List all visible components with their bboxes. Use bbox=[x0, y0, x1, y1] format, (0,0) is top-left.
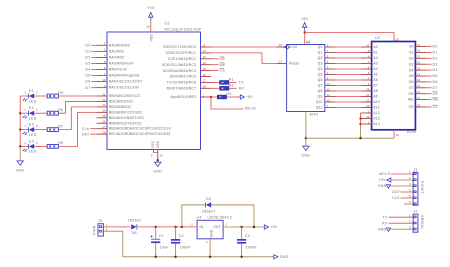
svg-text:A12: A12 bbox=[373, 111, 379, 115]
power +5V supply U3 bbox=[147, 6, 155, 21]
svg-text:17: 17 bbox=[417, 72, 421, 76]
svg-text:1N5817: 1N5817 bbox=[127, 219, 141, 223]
net label CLK to pin 27 bbox=[82, 127, 97, 131]
svg-text:RA4/T0CKI: RA4/T0CKI bbox=[109, 68, 128, 72]
svg-text:24: 24 bbox=[102, 109, 106, 113]
svg-text:D4: D4 bbox=[206, 197, 211, 201]
svg-text:D0: D0 bbox=[433, 45, 438, 49]
wire A tie to ground rail bbox=[360, 124, 362, 138]
svg-text:A7: A7 bbox=[373, 84, 377, 88]
svg-text:R1: R1 bbox=[229, 77, 234, 81]
capacitor C3 100nF bbox=[237, 227, 257, 257]
svg-text:D1: D1 bbox=[85, 49, 90, 53]
pin RB3 (pin 24) bbox=[97, 109, 143, 115]
svg-text:A9: A9 bbox=[373, 95, 377, 99]
svg-text:A11: A11 bbox=[373, 106, 379, 110]
pin VSS 8 and 19 of U3 bbox=[151, 150, 163, 161]
svg-text:TX: TX bbox=[383, 215, 388, 219]
svg-text:D6: D6 bbox=[132, 231, 137, 235]
svg-text:O2: O2 bbox=[409, 57, 414, 61]
connector J2 SERIAL bbox=[409, 210, 424, 233]
svg-text:12: 12 bbox=[327, 87, 331, 91]
svg-text:D3: D3 bbox=[433, 62, 438, 66]
resistor R7 bbox=[47, 124, 63, 131]
net label TX to J2 pin1 bbox=[383, 215, 414, 219]
ground GND arrow right bbox=[274, 255, 289, 259]
svg-text:+5V: +5V bbox=[379, 178, 387, 182]
svg-text:20: 20 bbox=[146, 25, 150, 29]
pin Q7 (pin 13) wire to U2 A7 (pin 3) bbox=[318, 82, 378, 88]
svg-text:24: 24 bbox=[366, 93, 370, 97]
net label RX to J2 pin2 bbox=[382, 221, 413, 225]
junction C1 top bbox=[155, 226, 157, 228]
svg-text:25: 25 bbox=[366, 87, 370, 91]
ground rail wire bbox=[306, 137, 394, 139]
wire A12-A14 tie bbox=[360, 113, 362, 124]
junction +5V bbox=[304, 31, 306, 33]
svg-text:D3: D3 bbox=[85, 62, 90, 66]
svg-text:E4: E4 bbox=[29, 139, 34, 143]
wire MCLR net with label bbox=[211, 97, 256, 111]
svg-text:CE: CE bbox=[409, 105, 415, 109]
net label WE with overline bbox=[211, 63, 226, 67]
svg-text:RB0/AN12/INT/IOC: RB0/AN12/INT/IOC bbox=[109, 94, 141, 98]
svg-text:WE: WE bbox=[433, 98, 440, 102]
svg-text:LM78L05ACZ: LM78L05ACZ bbox=[208, 216, 233, 220]
ground GND below U3 bbox=[153, 162, 162, 173]
wire +5V to U1 VDD pin 16 bbox=[304, 31, 306, 45]
svg-text:Q1: Q1 bbox=[318, 51, 323, 55]
pin RA6 (pin 10) with net label D6 bbox=[85, 78, 142, 84]
connector J5 PWR bbox=[93, 219, 108, 236]
pin RB5 (pin 26) bbox=[97, 120, 143, 126]
svg-text:CLK: CLK bbox=[392, 196, 400, 200]
svg-text:TX: TX bbox=[239, 81, 244, 85]
svg-text:22: 22 bbox=[102, 98, 106, 102]
pin GND of U4 to rail bbox=[209, 239, 211, 257]
svg-text:TX/CK/AN18/RC6: TX/CK/AN18/RC6 bbox=[167, 81, 196, 85]
svg-text:A1: A1 bbox=[373, 51, 377, 55]
capacitor C2 100nF bbox=[171, 227, 191, 257]
pin RB7 (pin 28) bbox=[97, 130, 171, 136]
svg-text:15: 15 bbox=[327, 98, 331, 102]
svg-text:19: 19 bbox=[417, 84, 421, 88]
svg-text:D5: D5 bbox=[433, 74, 438, 78]
wire RC0 to U1 CLK bbox=[211, 46, 287, 48]
power +5V arrow right bbox=[227, 95, 253, 99]
svg-text:Vpp/MCLR/RE3: Vpp/MCLR/RE3 bbox=[170, 95, 196, 99]
resistor R1 on TX line bbox=[211, 77, 244, 84]
svg-text:RA2/AN2: RA2/AN2 bbox=[109, 55, 124, 59]
pin RA3 (pin 5) with net label D3 bbox=[85, 60, 134, 66]
svg-text:18: 18 bbox=[417, 78, 421, 82]
pin Q8 (pin 12) wire to U2 A8 (pin 25) bbox=[318, 87, 378, 93]
svg-text:+5V: +5V bbox=[147, 6, 155, 10]
svg-text:CCP1/AN14/RC2: CCP1/AN14/RC2 bbox=[168, 57, 196, 61]
pin CE (pin 20) with net label CS bbox=[409, 103, 439, 109]
svg-text:14: 14 bbox=[396, 133, 400, 137]
svg-text:MCLR: MCLR bbox=[245, 107, 256, 111]
svg-text:Q2: Q2 bbox=[318, 56, 323, 60]
svg-text:SDI/SDA/AN16/RC4: SDI/SDA/AN16/RC4 bbox=[163, 69, 196, 73]
svg-text:D6: D6 bbox=[433, 80, 438, 84]
svg-text:Q11: Q11 bbox=[316, 106, 323, 110]
wire J5 pin1 to D6 bbox=[103, 226, 130, 228]
svg-text:R3: R3 bbox=[227, 92, 232, 96]
junction ground rail bbox=[359, 137, 361, 139]
svg-text:10: 10 bbox=[366, 43, 370, 47]
svg-text:C2: C2 bbox=[179, 234, 184, 238]
svg-text:C3: C3 bbox=[245, 234, 250, 238]
wire D6 to regulator input bbox=[138, 226, 197, 228]
svg-text:SOSCO/T1CKI/RC0: SOSCO/T1CKI/RC0 bbox=[163, 45, 196, 49]
svg-text:R6: R6 bbox=[58, 108, 63, 112]
pin RC6 (pin 17) bbox=[167, 79, 211, 85]
wire +5V to U2 VCC pin 28 bbox=[305, 33, 394, 42]
LED E4 bbox=[20, 139, 47, 153]
svg-text:O1: O1 bbox=[409, 51, 414, 55]
svg-text:A0: A0 bbox=[373, 45, 377, 49]
svg-text:OE: OE bbox=[220, 57, 226, 61]
svg-text:+5V: +5V bbox=[246, 95, 254, 99]
svg-text:Q10: Q10 bbox=[316, 100, 323, 104]
svg-text:E3: E3 bbox=[29, 123, 34, 127]
counter U1 4040 body bbox=[287, 40, 325, 116]
svg-text:LED: LED bbox=[29, 117, 37, 121]
pin RC5 (pin 16) bbox=[170, 73, 211, 79]
svg-text:A13: A13 bbox=[373, 117, 379, 121]
net label OE with overline bbox=[211, 57, 226, 61]
pin RA4 (pin 6) with net label D4 bbox=[85, 66, 127, 72]
resistor R2 on RX line bbox=[211, 83, 245, 90]
connector J1 PICKIT bbox=[409, 168, 424, 206]
net label MCLR to J1 pin1 bbox=[379, 172, 413, 176]
svg-text:CLK: CLK bbox=[82, 127, 90, 131]
pin RA5 (pin 7) with net label D5 bbox=[85, 72, 140, 78]
svg-text:1N5817: 1N5817 bbox=[201, 209, 215, 213]
pin 6 n.c. stub of J1 bbox=[404, 202, 413, 206]
junction LED bus 4 bbox=[19, 145, 21, 147]
junction D4 return bbox=[253, 226, 255, 228]
pin A14 (pin 1) bbox=[361, 120, 380, 126]
svg-text:26: 26 bbox=[102, 120, 106, 124]
pin OE (pin 22) with net label OE bbox=[408, 90, 438, 96]
net label DAT to J1 pin4 bbox=[392, 190, 413, 194]
svg-text:12: 12 bbox=[417, 49, 421, 53]
pin Q6 (pin 4) wire to U2 A6 (pin 4) bbox=[318, 76, 378, 82]
svg-text:D1: D1 bbox=[433, 51, 438, 55]
svg-text:LED: LED bbox=[29, 133, 37, 137]
svg-text:RX: RX bbox=[239, 86, 245, 90]
svg-text:PICKIT: PICKIT bbox=[420, 181, 424, 195]
svg-text:DAT: DAT bbox=[82, 132, 90, 136]
svg-text:CS: CS bbox=[433, 105, 439, 109]
svg-text:Q6: Q6 bbox=[318, 78, 323, 82]
pin RB1 (pin 22) bbox=[97, 98, 134, 104]
pin RC1 (pin 12) bbox=[166, 49, 211, 55]
svg-text:OE: OE bbox=[433, 92, 439, 96]
svg-text:18: 18 bbox=[203, 85, 207, 89]
svg-text:16: 16 bbox=[417, 66, 421, 70]
svg-text:U3: U3 bbox=[165, 22, 170, 26]
junction A14 bbox=[359, 123, 361, 125]
svg-text:RB5/AN13/T1G/IOC: RB5/AN13/T1G/IOC bbox=[109, 121, 142, 125]
svg-text:MCLR: MCLR bbox=[379, 172, 390, 176]
resistor R6 bbox=[47, 108, 63, 115]
LED E3 bbox=[20, 123, 47, 137]
svg-text:100nF: 100nF bbox=[180, 245, 192, 249]
resistor R3 pull-up bbox=[211, 92, 232, 99]
pin A13 (pin 26) bbox=[361, 115, 380, 121]
junction C2 top bbox=[174, 226, 176, 228]
pin RA1 (pin 3) with net label D1 bbox=[85, 48, 124, 54]
svg-text:RB1/AN10/IOC: RB1/AN10/IOC bbox=[109, 99, 134, 103]
junction A13 bbox=[359, 117, 361, 119]
svg-text:O3: O3 bbox=[409, 62, 414, 66]
svg-text:RA1/AN1: RA1/AN1 bbox=[109, 49, 124, 53]
svg-text:IN: IN bbox=[200, 225, 204, 229]
ground rail bottom bbox=[123, 256, 274, 258]
wire E1 resistor to RB0 bbox=[58, 95, 96, 97]
svg-text:DAT: DAT bbox=[392, 190, 400, 194]
svg-text:OE: OE bbox=[408, 92, 414, 96]
svg-text:RA5/AN4/Vcap/SS: RA5/AN4/Vcap/SS bbox=[109, 74, 140, 78]
svg-text:GND: GND bbox=[280, 255, 289, 259]
pin MCLR (pin 1) of U3 bbox=[170, 93, 211, 99]
svg-text:O6: O6 bbox=[409, 80, 414, 84]
svg-text:ROM: ROM bbox=[407, 130, 416, 134]
pin RC2 (pin 13) bbox=[168, 55, 211, 61]
svg-text:WE: WE bbox=[408, 98, 414, 102]
svg-text:x: x bbox=[404, 202, 406, 206]
svg-text:16: 16 bbox=[306, 40, 310, 44]
wire E2 resistor to RB1 bbox=[58, 101, 96, 113]
pin CLK of U1 with clock symbol bbox=[277, 43, 298, 49]
svg-text:D6: D6 bbox=[85, 80, 90, 84]
svg-text:15: 15 bbox=[417, 61, 421, 65]
svg-text:D2: D2 bbox=[433, 56, 438, 60]
wire LED cathode bus bbox=[19, 96, 21, 146]
svg-text:Q5: Q5 bbox=[318, 73, 323, 77]
junction LED bus 3 bbox=[19, 128, 21, 130]
svg-text:A10: A10 bbox=[373, 100, 379, 104]
pin O6 (pin 18) with net label D6 bbox=[409, 78, 438, 84]
svg-text:E2: E2 bbox=[29, 106, 34, 110]
svg-text:LED: LED bbox=[29, 150, 37, 154]
junction rail C2 bbox=[174, 256, 176, 258]
svg-text:28: 28 bbox=[102, 130, 106, 134]
pin Q0 (pin 9) wire to U2 A0 (pin 10) bbox=[318, 43, 378, 49]
svg-text:Q0: Q0 bbox=[318, 45, 323, 49]
svg-text:U4: U4 bbox=[197, 216, 202, 220]
junction MCLR bbox=[210, 96, 212, 98]
svg-text:RA0/AN0/SS: RA0/AN0/SS bbox=[109, 43, 131, 47]
svg-text:O4: O4 bbox=[409, 68, 414, 72]
svg-text:13: 13 bbox=[327, 82, 331, 86]
svg-text:RX/DT/AN19/RC7: RX/DT/AN19/RC7 bbox=[167, 87, 196, 91]
svg-text:RX: RX bbox=[382, 221, 388, 225]
svg-text:16: 16 bbox=[203, 73, 207, 77]
svg-text:PWR: PWR bbox=[93, 225, 97, 234]
pin A12 (pin 2) bbox=[361, 109, 380, 115]
junction LED bus 2 bbox=[19, 112, 21, 114]
svg-text:CS: CS bbox=[220, 69, 226, 73]
svg-text:27: 27 bbox=[417, 96, 421, 100]
svg-text:13: 13 bbox=[203, 55, 207, 59]
svg-text:+5V: +5V bbox=[301, 17, 309, 21]
power +5V supply U1 U2 bbox=[301, 17, 309, 31]
svg-text:D0: D0 bbox=[85, 43, 90, 47]
pin Q1 (pin 7) wire to U2 A1 (pin 9) bbox=[318, 49, 378, 55]
svg-text:15: 15 bbox=[203, 67, 207, 71]
svg-text:A5: A5 bbox=[373, 73, 377, 77]
pin RA7 (pin 9) with net label D7 bbox=[85, 84, 139, 90]
svg-text:D4: D4 bbox=[433, 68, 438, 72]
junction rail C3 bbox=[240, 256, 242, 258]
svg-text:VDD: VDD bbox=[149, 33, 153, 41]
wire E3 resistor to RB2 bbox=[58, 107, 96, 130]
pin RC3 (pin 14) bbox=[162, 61, 211, 67]
junction D4 branch bbox=[181, 226, 183, 228]
pin RB2 (pin 23) bbox=[97, 103, 132, 109]
pin Q3 (pin 5) wire to U2 A3 (pin 7) bbox=[318, 60, 378, 66]
svg-text:SCK/SCL/AN15/RC3: SCK/SCL/AN15/RC3 bbox=[162, 63, 196, 67]
svg-text:SERIAL: SERIAL bbox=[420, 215, 424, 229]
power +5V into J1 pin2 bbox=[379, 178, 413, 182]
svg-text:27: 27 bbox=[102, 125, 106, 129]
svg-text:U2: U2 bbox=[375, 36, 380, 40]
svg-text:100nF: 100nF bbox=[246, 245, 258, 249]
pin VSS of U1 to ground rail bbox=[305, 112, 307, 139]
svg-text:20: 20 bbox=[417, 103, 421, 107]
junction VSS bbox=[157, 159, 159, 161]
pin RC0 (pin 11) bbox=[163, 43, 211, 49]
ground GND below LED bus bbox=[16, 161, 25, 173]
svg-text:26: 26 bbox=[366, 115, 370, 119]
ground GND into J2 pin3 bbox=[378, 227, 413, 231]
regulator U4 LM78L05ACZ bbox=[191, 216, 233, 244]
pin O5 (pin 17) with net label D5 bbox=[409, 72, 438, 78]
junction C3 top bbox=[240, 226, 242, 228]
svg-text:C1: C1 bbox=[159, 234, 164, 238]
svg-text:GND: GND bbox=[16, 169, 25, 173]
svg-text:GND: GND bbox=[302, 153, 311, 157]
pin O4 (pin 16) with net label D4 bbox=[409, 66, 438, 72]
svg-text:+5V: +5V bbox=[270, 225, 278, 229]
svg-text:A8: A8 bbox=[373, 89, 377, 93]
svg-text:11: 11 bbox=[203, 43, 206, 47]
diode D6 1N5817 bbox=[127, 219, 141, 235]
svg-text:SDO/AN17/RC5: SDO/AN17/RC5 bbox=[170, 75, 196, 79]
svg-text:17: 17 bbox=[203, 79, 207, 83]
svg-text:A3: A3 bbox=[373, 62, 377, 66]
wire U4 output bbox=[223, 226, 264, 228]
wire VDD bbox=[150, 21, 152, 33]
svg-text:12: 12 bbox=[203, 49, 207, 53]
LED E1 bbox=[20, 89, 47, 103]
svg-text:Q7: Q7 bbox=[318, 84, 323, 88]
pin RC4 (pin 15) bbox=[163, 67, 211, 73]
svg-text:D5: D5 bbox=[85, 74, 90, 78]
pin O7 (pin 19) with net label D7 bbox=[409, 84, 438, 90]
svg-text:Q8: Q8 bbox=[318, 89, 323, 93]
svg-text:VSS: VSS bbox=[151, 140, 155, 148]
svg-text:GND: GND bbox=[378, 184, 387, 188]
svg-text:A4: A4 bbox=[373, 67, 377, 71]
pin Reset of U1 bbox=[277, 60, 299, 66]
svg-text:Q3: Q3 bbox=[318, 62, 323, 66]
svg-text:J2: J2 bbox=[413, 210, 417, 214]
svg-text:21: 21 bbox=[366, 98, 370, 102]
pin Q11 (pin 1) wire to U2 A11 (pin 23) bbox=[316, 104, 380, 110]
svg-text:13: 13 bbox=[417, 55, 421, 59]
svg-text:GND: GND bbox=[378, 227, 387, 231]
svg-text:O5: O5 bbox=[409, 74, 414, 78]
pin Q10 (pin 15) wire to U2 A10 (pin 21) bbox=[316, 98, 380, 104]
svg-text:19: 19 bbox=[160, 154, 164, 158]
svg-text:RB4/AN11/NDET/IOC: RB4/AN11/NDET/IOC bbox=[109, 116, 145, 120]
svg-text:O7: O7 bbox=[409, 86, 414, 90]
svg-text:SOSCI/CCP2/RC1: SOSCI/CCP2/RC1 bbox=[166, 51, 196, 55]
wire D4 bypass branch up bbox=[182, 205, 205, 227]
svg-text:A14: A14 bbox=[373, 122, 379, 126]
svg-text:RA7/OSC1/CLKIN: RA7/OSC1/CLKIN bbox=[109, 86, 139, 90]
pin Q9 (pin 14) wire to U2 A9 (pin 24) bbox=[318, 93, 378, 99]
pin Q4 (pin 3) wire to U2 A4 (pin 6) bbox=[318, 65, 378, 71]
wire RC1 to U1 Reset bbox=[211, 53, 277, 64]
pin O3 (pin 15) with net label D3 bbox=[409, 61, 438, 67]
pin RC7 (pin 18) bbox=[167, 85, 211, 91]
svg-text:J5: J5 bbox=[98, 219, 102, 223]
pin RA2 (pin 4) with net label D2 bbox=[85, 54, 124, 60]
svg-text:R2: R2 bbox=[229, 83, 234, 87]
svg-text:23: 23 bbox=[102, 103, 106, 107]
svg-text:14: 14 bbox=[327, 93, 331, 97]
svg-text:RB6/ADGRDA/IOC/ICSPCLK/ICDCLK: RB6/ADGRDA/IOC/ICSPCLK/ICDCLK bbox=[109, 127, 172, 131]
svg-text:WE: WE bbox=[220, 63, 227, 67]
net label CLK to J1 pin5 bbox=[392, 196, 413, 200]
svg-text:E1: E1 bbox=[29, 89, 34, 93]
svg-text:25: 25 bbox=[102, 114, 106, 118]
resistor R8 bbox=[47, 141, 63, 148]
svg-text:Q9: Q9 bbox=[318, 95, 323, 99]
svg-text:10uF: 10uF bbox=[160, 245, 170, 249]
wire D4 to output bbox=[212, 205, 255, 227]
svg-text:LED: LED bbox=[29, 99, 37, 103]
svg-text:VSS: VSS bbox=[156, 140, 160, 148]
svg-text:23: 23 bbox=[366, 104, 370, 108]
svg-text:RA6/OSC2/CLKOUT: RA6/OSC2/CLKOUT bbox=[109, 80, 143, 84]
wire J5 pin2 to ground rail bbox=[103, 231, 122, 257]
pin O1 (pin 12) with net label D1 bbox=[409, 49, 438, 55]
svg-text:10: 10 bbox=[279, 43, 283, 47]
svg-text:Q4: Q4 bbox=[318, 67, 323, 71]
diode D4 1N5817 bypass bbox=[201, 197, 215, 214]
pin O0 (pin 11) with net label D0 bbox=[409, 43, 438, 49]
svg-text:11: 11 bbox=[417, 43, 420, 47]
pin RB0 (pin 21) bbox=[97, 92, 141, 98]
capacitor C1 10uF bbox=[151, 227, 170, 257]
svg-text:R8: R8 bbox=[58, 141, 63, 145]
pin Q2 (pin 6) wire to U2 A2 (pin 8) bbox=[318, 54, 378, 60]
svg-text:A2: A2 bbox=[373, 56, 377, 60]
wire E4 resistor to RB3 bbox=[58, 112, 96, 146]
net label DAT to pin 28 bbox=[82, 132, 97, 136]
svg-text:D4: D4 bbox=[85, 68, 90, 72]
svg-text:Reset: Reset bbox=[289, 62, 299, 66]
svg-text:D2: D2 bbox=[85, 56, 90, 60]
pin RB4 (pin 25) bbox=[97, 114, 145, 120]
